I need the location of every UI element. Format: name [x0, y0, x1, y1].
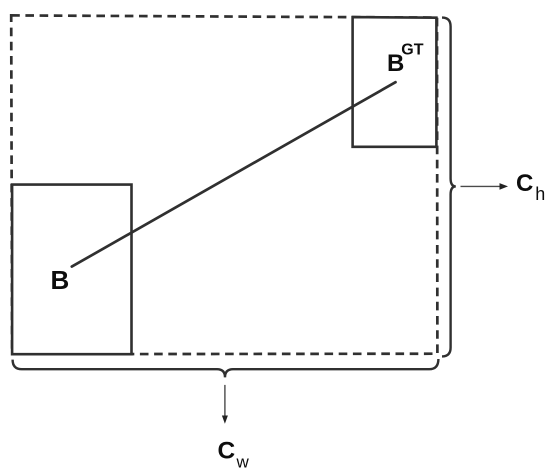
svg-text:h: h — [535, 184, 545, 204]
ground-truth box BGT — [353, 17, 437, 147]
anchor box B — [12, 185, 131, 355]
right curly brace (height of C) — [442, 18, 456, 357]
svg-text:w: w — [236, 453, 250, 472]
bottom curly brace (width of C) — [13, 359, 439, 377]
arrow to Ch — [461, 185, 502, 187]
center-distance diagonal line — [72, 82, 396, 266]
enclosing dashed box C — [11, 15, 437, 354]
arrow to Cw — [224, 385, 226, 417]
svg-text:C: C — [218, 438, 236, 465]
svg-text:GT: GT — [401, 42, 423, 59]
svg-text:C: C — [516, 170, 533, 197]
svg-text:B: B — [51, 265, 70, 295]
